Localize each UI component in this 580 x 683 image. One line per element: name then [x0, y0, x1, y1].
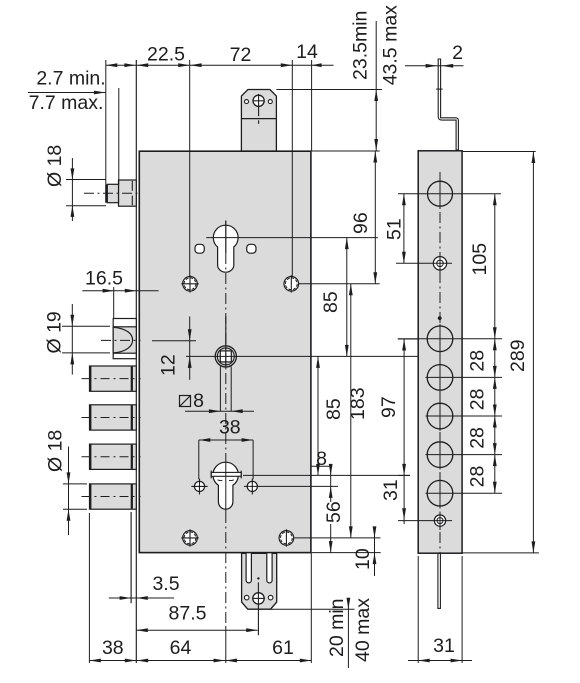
top deviator bolt hidden edge upper: [131, 181, 133, 191]
arrows 2.7-7.7 dim: [106, 63, 118, 67]
strip bottom extension line: [462, 552, 539, 554]
extension line 38 right screw: [252, 440, 254, 479]
bottom screw hole right crosshair: [285, 529, 287, 546]
svg-text:8: 8: [316, 448, 327, 470]
main vertical centerline: [225, 221, 227, 254]
dim 105 line: [494, 194, 496, 339]
dim 20-40 line: [347, 600, 349, 668]
lower screw hole right crosshair: [251, 479, 253, 495]
dim 8 line: [330, 466, 332, 497]
deadbolt D4 step edge (thick): [131, 485, 133, 509]
lower euro cylinder hole: [213, 462, 238, 509]
bottom tab center hole: [253, 593, 264, 604]
rod reference tick: [436, 88, 442, 90]
lower screw hole left crosshair: [199, 479, 201, 495]
C3-C7 vertical crosshairs: [439, 324, 441, 354]
top deviator bolt cap: [119, 180, 137, 206]
svg-text:85: 85: [320, 291, 342, 313]
dim 12 upper tick (latch axis): [152, 340, 196, 342]
lower cylinder cam bar: [211, 472, 241, 476]
svg-text:Ø 18: Ø 18: [45, 430, 67, 472]
cam bar end tick left: [210, 471, 212, 479]
bottom tab hole crosshair horizontal: [252, 597, 265, 599]
dim 96 line: [374, 151, 376, 284]
extension line 38 left screw: [198, 440, 200, 479]
C3 horizontal line: [398, 338, 502, 340]
svg-text:10: 10: [352, 548, 374, 570]
deadbolt D1: [90, 366, 137, 391]
dim Ø18 top extension lines: [66, 179, 106, 181]
svg-text:38: 38: [219, 417, 241, 439]
strip right extension bottom: [461, 556, 463, 663]
upper cylinder side slot right: [247, 244, 256, 253]
side strip vertical centerline: [439, 172, 441, 553]
follower horizontal centerline: [186, 355, 418, 357]
svg-text:72: 72: [230, 44, 252, 66]
upper screw hole left: [183, 277, 198, 292]
dim Ø18 top line: [71, 158, 73, 221]
follower vertical line above: [225, 316, 227, 367]
dim 85 upper line: [346, 238, 348, 357]
lock body plate: [139, 151, 311, 552]
upper euro cylinder hole: [213, 225, 238, 272]
dim 10 line: [374, 527, 376, 576]
lower cylinder horizontal centerline: [243, 474, 410, 476]
upper cylinder vertical crosshair): [225, 221, 227, 254]
dim 28 #2 arrows: [493, 377, 497, 389]
bottom tab centerline dot: [257, 577, 259, 579]
arrows 61 bottom: [225, 659, 237, 663]
svg-text:64: 64: [170, 637, 192, 659]
side ring screw upper: [433, 257, 446, 270]
side circle C4: [427, 365, 453, 391]
side circle C6: [427, 442, 453, 468]
cam dash left: [218, 479, 223, 482]
svg-text:28: 28: [467, 427, 489, 449]
bottom dimension line: [89, 660, 311, 662]
top tab hole horizontal crosshair: [253, 100, 264, 102]
svg-text:28: 28: [467, 350, 489, 372]
lower screws horizontal line: [244, 485, 338, 487]
bottom screw hole left crosshair: [189, 529, 191, 546]
ring lower vertical crosshair: [439, 512, 441, 531]
svg-text:Ø 19: Ø 19: [44, 311, 66, 353]
upper screw hole left crosshair: [189, 275, 191, 292]
bottom tab small hole right: [268, 595, 273, 600]
tab top reference line: [276, 89, 382, 91]
dim 183 line: [350, 284, 352, 538]
bottom screw hole left: [183, 531, 198, 546]
square extension line right: [230, 367, 232, 412]
side centerline dot: [438, 316, 442, 320]
cam bar end tick right: [240, 471, 242, 479]
top tab small hole right: [268, 100, 272, 104]
top deviator bolt centerline: [84, 192, 141, 194]
svg-text:87.5: 87.5: [169, 603, 207, 625]
cam dash right: [229, 479, 234, 482]
ring screw upper horizontal line: [396, 262, 452, 264]
dim Ø19 extension lines: [62, 325, 110, 327]
svg-text:2: 2: [452, 42, 463, 64]
dim 38 inner line: [199, 439, 253, 441]
C1 horizontal line: [398, 193, 501, 195]
bottom fixing tab plate: [242, 553, 277, 609]
svg-text:31: 31: [380, 479, 402, 501]
lower screw hole left: [194, 481, 204, 491]
svg-text:14: 14: [296, 41, 318, 63]
top control rod: [438, 59, 458, 150]
dim 31 bottom line: [408, 660, 472, 662]
extension line 14 right (body edge): [311, 60, 313, 151]
spindle follower outer circle: [215, 346, 236, 367]
C4 horizontal line: [426, 376, 503, 378]
top dimension line: [106, 64, 334, 66]
dim 28 #3 arrows: [493, 416, 497, 428]
C6 horizontal line: [426, 454, 503, 456]
tab bottom reference line: [271, 608, 355, 610]
upper screw hole right: [284, 277, 299, 292]
svg-text:23.5min: 23.5min: [350, 11, 372, 80]
top tab center hole: [253, 95, 264, 106]
top deviator bolt tip: [107, 184, 118, 202]
arrow 14 dim: [312, 63, 322, 67]
dim line 2: [405, 65, 464, 67]
svg-text:43.5 max: 43.5 max: [380, 5, 402, 85]
ring screw lower horizontal line: [398, 520, 452, 522]
dim 97 line: [403, 339, 405, 475]
dim 97 top extension: [398, 338, 419, 340]
upper screw hole right crosshair: [290, 275, 292, 292]
side circle C3: [427, 326, 453, 352]
dim 28 #4 arrows: [493, 455, 497, 467]
upper cylinder horizontal centerline: [206, 237, 378, 239]
top deviator bolt tip face (thick): [105, 184, 107, 202]
arrows 72 dim: [190, 63, 202, 67]
dim Ø18 bottom extension lines: [63, 483, 87, 485]
dim 8 square line: [185, 410, 254, 412]
side ring screw lower: [434, 515, 445, 526]
svg-text:7.7 max.: 7.7 max.: [29, 92, 104, 114]
svg-text:12: 12: [158, 354, 180, 376]
dim 28 #1 arrows: [493, 339, 497, 351]
svg-text:56: 56: [323, 501, 345, 523]
arrows 38 bottom: [89, 659, 101, 663]
label square 8: [180, 396, 191, 407]
bottom tab centerline: [257, 582, 259, 635]
svg-text:40 max: 40 max: [352, 598, 374, 662]
extension line 22.5 left / 72 left: [189, 60, 191, 276]
top tab hole vertical crosshair: [258, 94, 260, 116]
deadbolt D2 step edge (thick): [131, 405, 133, 429]
deadbolt D3 centerline: [82, 456, 141, 458]
svg-text:22.5: 22.5: [147, 44, 185, 66]
svg-text:20 min: 20 min: [326, 598, 348, 657]
extension line 72 right: [291, 60, 293, 276]
top tab center tick below junction: [258, 120, 260, 124]
svg-text:28: 28: [467, 466, 489, 488]
bottom rod: [438, 553, 441, 608]
C1 vertical crosshair: [439, 179, 441, 210]
dim 31 keyhole tick: [398, 474, 410, 476]
svg-text:31: 31: [433, 635, 455, 657]
deadbolt D4 front face (thick): [89, 484, 91, 509]
svg-text:38: 38: [102, 637, 124, 659]
svg-text:3.5: 3.5: [152, 573, 179, 595]
bottom screws horizontal line: [295, 537, 381, 539]
bottom tab slot left: [246, 553, 251, 582]
svg-text:289: 289: [507, 339, 529, 372]
svg-text:28: 28: [467, 388, 489, 410]
arrows 64 bottom: [137, 659, 149, 663]
lower screw hole right: [247, 481, 257, 491]
svg-text:Ø 18: Ø 18: [44, 145, 66, 187]
svg-text:61: 61: [272, 637, 294, 659]
body bottom edge extension: [312, 552, 381, 554]
svg-text:51: 51: [384, 218, 406, 240]
spindle follower inner circle: [217, 348, 234, 365]
latch bolt bevel curve: [114, 327, 133, 353]
top tab junction line: [241, 118, 276, 120]
deadbolt D2: [90, 405, 137, 430]
side circle C5: [427, 403, 453, 429]
C7 horizontal line: [426, 492, 503, 494]
side circle C7: [427, 480, 453, 506]
svg-text:97: 97: [378, 396, 400, 418]
svg-text:105: 105: [469, 243, 491, 276]
leader line 7.7 max: [28, 92, 105, 94]
bottom tab slot right: [267, 553, 272, 582]
bottom screw hole right: [279, 531, 294, 546]
side strip body: [418, 151, 462, 553]
extension line latch tip: [113, 287, 115, 319]
deadbolt D3: [90, 444, 137, 469]
spindle square hole: [220, 351, 231, 362]
ring upper vertical crosshair: [439, 254, 441, 273]
strip top extension line: [462, 151, 536, 153]
dim 31 side line: [403, 475, 405, 524]
top deviator bolt hidden edge lower: [131, 196, 133, 206]
latch band: [113, 327, 136, 353]
svg-text:96: 96: [350, 212, 372, 234]
dim Ø19 line: [71, 304, 73, 375]
dim 8 shelf line: [312, 465, 332, 467]
extension line bolt tip min: [118, 88, 120, 184]
strip left extension bottom: [417, 556, 419, 663]
dim 51 line: [403, 194, 405, 264]
deadbolt D1 step edge (thick): [131, 367, 133, 391]
deadbolt D3 step edge (thick): [131, 445, 133, 469]
deadbolt D1 centerline: [82, 378, 141, 380]
svg-text:8: 8: [193, 390, 204, 412]
deadbolt D2 centerline: [82, 416, 141, 418]
dim 87.5 line: [136, 629, 257, 631]
deadbolt D1 front face (thick): [89, 366, 91, 391]
upper cylinder side slot left: [195, 244, 204, 253]
latch centerline: [101, 339, 141, 341]
square extension line left: [219, 367, 221, 412]
body top edge extension: [312, 150, 380, 152]
extension line body right bottom: [310, 553, 312, 663]
deadbolt D2 front face (thick): [89, 405, 91, 430]
faceplate front edge line: [135, 60, 137, 663]
latch housing opening: [113, 319, 136, 359]
dim 56 line: [330, 497, 332, 502]
C5 horizontal line: [426, 415, 503, 417]
side circle C1: [428, 181, 453, 206]
dim 16.5 line: [82, 290, 158, 292]
top fixing tab plate: [241, 90, 276, 152]
faceplate recess extension line (3.5): [130, 512, 132, 603]
arrows 22.5 dim: [137, 63, 149, 67]
dim 12 line: [189, 316, 191, 379]
dim line 23.5-43.5: [375, 21, 377, 151]
deadbolt D3 front face (thick): [89, 445, 91, 470]
svg-text:16.5: 16.5: [85, 268, 123, 290]
extension line bolt tips bottom: [88, 513, 90, 663]
dim Ø18 bottom line: [68, 447, 70, 536]
dim 3.5 line: [109, 597, 174, 599]
dim 289 line: [532, 152, 534, 553]
upper screws extension right: [299, 283, 380, 285]
extension line bolt tip face: [105, 60, 107, 184]
deadbolt D4: [90, 484, 137, 509]
bottom tab small hole left: [244, 595, 249, 600]
svg-text:2.7 min.: 2.7 min.: [36, 68, 105, 90]
svg-text:85: 85: [323, 398, 345, 420]
dim 28 chain line: [494, 339, 496, 493]
top tab small hole left: [245, 100, 249, 104]
deadbolt D4 centerline: [82, 496, 141, 498]
dim 85 lower line: [317, 356, 319, 475]
